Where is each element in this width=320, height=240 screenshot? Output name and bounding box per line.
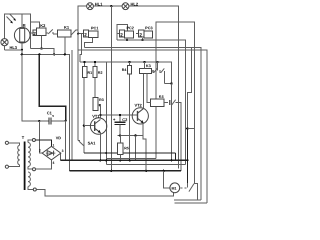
node K3 coil top (143, 61, 145, 63)
wire top rail (93, 5, 122, 7)
node R5 bottom (119, 159, 121, 161)
photoresistor R (7, 14, 31, 50)
wire PC1 under loop (84, 38, 92, 48)
wire top-left loop (5, 14, 31, 50)
wire hook to motor contact (188, 47, 192, 128)
wire tap to bridge (36, 140, 52, 146)
wire y164 link (106, 164, 185, 166)
wire PC3 top frame (156, 22, 195, 184)
node A-B join (53, 53, 55, 55)
wire K2 small box feed (31, 32, 34, 34)
lamp HL1 (87, 3, 94, 10)
svg-text:M1: M1 (172, 187, 177, 191)
wire K3 coil top lead (143, 62, 145, 68)
svg-text:2: 2 (120, 32, 123, 37)
node VT1 emitter on bus (99, 159, 101, 161)
svg-text:PC3: PC3 (145, 26, 152, 30)
svg-text:VD: VD (56, 136, 62, 140)
node motor branch (162, 170, 164, 172)
svg-text:2: 2 (39, 149, 41, 153)
node top rail (110, 5, 112, 7)
wire bridge pin3 riser (60, 153, 62, 160)
wire K1 coil bottom lead (64, 37, 66, 55)
relay K4 coil (151, 99, 164, 106)
wire bottom bus (61, 159, 188, 161)
wire VT1 emitter down (99, 133, 101, 161)
counter PC3 (136, 33, 139, 35)
node VT1 base junction (83, 125, 85, 127)
svg-text:K3: K3 (146, 64, 151, 68)
wire x129 (129, 62, 131, 160)
wire line A (31, 48, 55, 54)
capacitor C1 (49, 117, 66, 124)
svg-text:3: 3 (62, 149, 64, 153)
wire centre drop x106 (105, 62, 107, 165)
wire bridge minus riser (39, 121, 43, 153)
wire K2 coil bottom lead (41, 36, 43, 49)
contact K1.1 (71, 30, 84, 34)
wire K2 coil top feed (31, 22, 40, 28)
svg-text:PC1: PC1 (91, 26, 98, 30)
transistor VT1 (90, 118, 106, 134)
lamp HL2 (122, 3, 129, 10)
svg-text:R: R (23, 23, 26, 28)
svg-text:R1: R1 (88, 71, 93, 75)
svg-text:K1: K1 (64, 25, 70, 30)
relay K3 coil (139, 68, 151, 73)
wire outer bottom loops (198, 199, 202, 201)
resistor R4 (128, 66, 132, 74)
svg-text:VT1: VT1 (92, 114, 100, 119)
capacitor C2 (114, 115, 125, 135)
svg-text:2: 2 (139, 32, 142, 37)
node x106 on bus (105, 159, 107, 161)
node x106 on y153 (105, 152, 107, 154)
contact chevron after K4 (164, 100, 181, 171)
node VT2 emitter on lower bus (145, 170, 147, 172)
relay K1 coil (58, 30, 71, 37)
svg-text:C2: C2 (122, 117, 128, 122)
lamp HL3 (1, 39, 8, 46)
node: R / HL3 junction (21, 49, 23, 51)
counter PC1 (84, 30, 98, 38)
node: contact to HL1 wire (77, 33, 79, 35)
node on line A (40, 47, 42, 49)
resistor R5 (118, 143, 123, 155)
node B to +v branch (38, 53, 40, 55)
wire middle drop to bottom bus (71, 50, 73, 160)
node C2 top (119, 114, 121, 116)
primary winding (18, 145, 20, 165)
wire base line VT2 (100, 114, 137, 116)
node contact riser on +bus (156, 61, 158, 63)
wire PC bus y40 (117, 40, 186, 165)
svg-text:HL3: HL3 (9, 45, 17, 50)
node C2 bottom / R5 top (119, 134, 121, 136)
wire VT1 collector (98, 105, 100, 118)
node R2 top (94, 61, 96, 63)
wire y135 link (118, 134, 143, 136)
wire x135 drop (135, 135, 137, 160)
resistor R2 (93, 66, 97, 77)
svg-text:R3: R3 (99, 98, 104, 102)
motor M1 (170, 183, 180, 193)
wire supply line y153 (84, 153, 176, 160)
wire bottom secondary out (36, 190, 173, 197)
wire HL1 left down (78, 6, 86, 141)
node R1 top (83, 61, 85, 63)
wire mid vertical bus (110, 6, 112, 171)
wire VT2 collector to K3 coil (142, 73, 144, 108)
wire VT1 base (84, 125, 95, 127)
node B left (21, 53, 23, 55)
svg-text:+: + (113, 117, 116, 122)
wire motor left riser (164, 171, 170, 188)
svg-text:C1: C1 (47, 110, 53, 115)
node x135 branch (134, 134, 136, 136)
wire x171 down (171, 83, 173, 160)
relay K2 coil (33, 28, 46, 35)
wire R2 to R3 (94, 77, 96, 97)
motor contact (174, 183, 198, 200)
resistor R3 (93, 98, 98, 111)
node R3 collector (99, 104, 101, 106)
bridge VD (42, 146, 61, 160)
wire long bus y47 (84, 47, 201, 200)
svg-text:1: 1 (53, 144, 55, 148)
wire VT2 emitter (143, 123, 146, 171)
svg-text:K2: K2 (40, 23, 46, 28)
wire bridge pin4 (36, 160, 52, 169)
node bus to contact feed (186, 159, 188, 161)
svg-text:2: 2 (84, 32, 87, 37)
wire +rail down left (39, 54, 65, 120)
wire y168 lower bus (69, 170, 181, 172)
wire line B (22, 50, 70, 171)
svg-text:R2: R2 (98, 71, 103, 75)
wire C1 right riser (65, 121, 67, 161)
node x171 on bus (170, 159, 172, 161)
secondary 2 (28, 172, 30, 186)
node mid bus on lower bus (110, 170, 112, 172)
wire bus y50 (78, 50, 207, 203)
node K1 lead on B (64, 53, 66, 55)
node K3 contact output (170, 82, 172, 84)
wire VT1 base from R1 (83, 77, 85, 152)
wire PC2 bottom stub (126, 38, 128, 40)
node collector to VT2 base (99, 114, 101, 116)
wire K4 feed from coil bottom (147, 73, 151, 102)
transistor VT2 (132, 108, 148, 124)
node C1 right (65, 120, 67, 122)
svg-text:PC2: PC2 (126, 26, 133, 30)
contact K3.1 chain (151, 62, 171, 83)
svg-text:VT2: VT2 (134, 103, 142, 108)
svg-text:4: 4 (53, 161, 55, 165)
secondary 1 (28, 143, 30, 167)
wire bus y62 (80, 34, 171, 84)
counter PC2 (117, 25, 128, 41)
wire HL3 net down to C1 (22, 54, 49, 121)
resistor R1 (82, 66, 86, 77)
wire y158 link (106, 157, 156, 159)
svg-text:R5: R5 (124, 146, 129, 150)
switch SA1 (78, 141, 84, 146)
node R4 top (128, 61, 130, 63)
contact K2.1 (46, 29, 58, 34)
core (24, 142, 26, 191)
svg-text:SA1: SA1 (88, 141, 97, 146)
mechanical link dashes (181, 187, 187, 189)
svg-text:R4: R4 (122, 68, 127, 72)
node R4 net on bus (128, 159, 130, 161)
wire top rail right (129, 6, 179, 169)
node C1 left branch (38, 120, 40, 122)
